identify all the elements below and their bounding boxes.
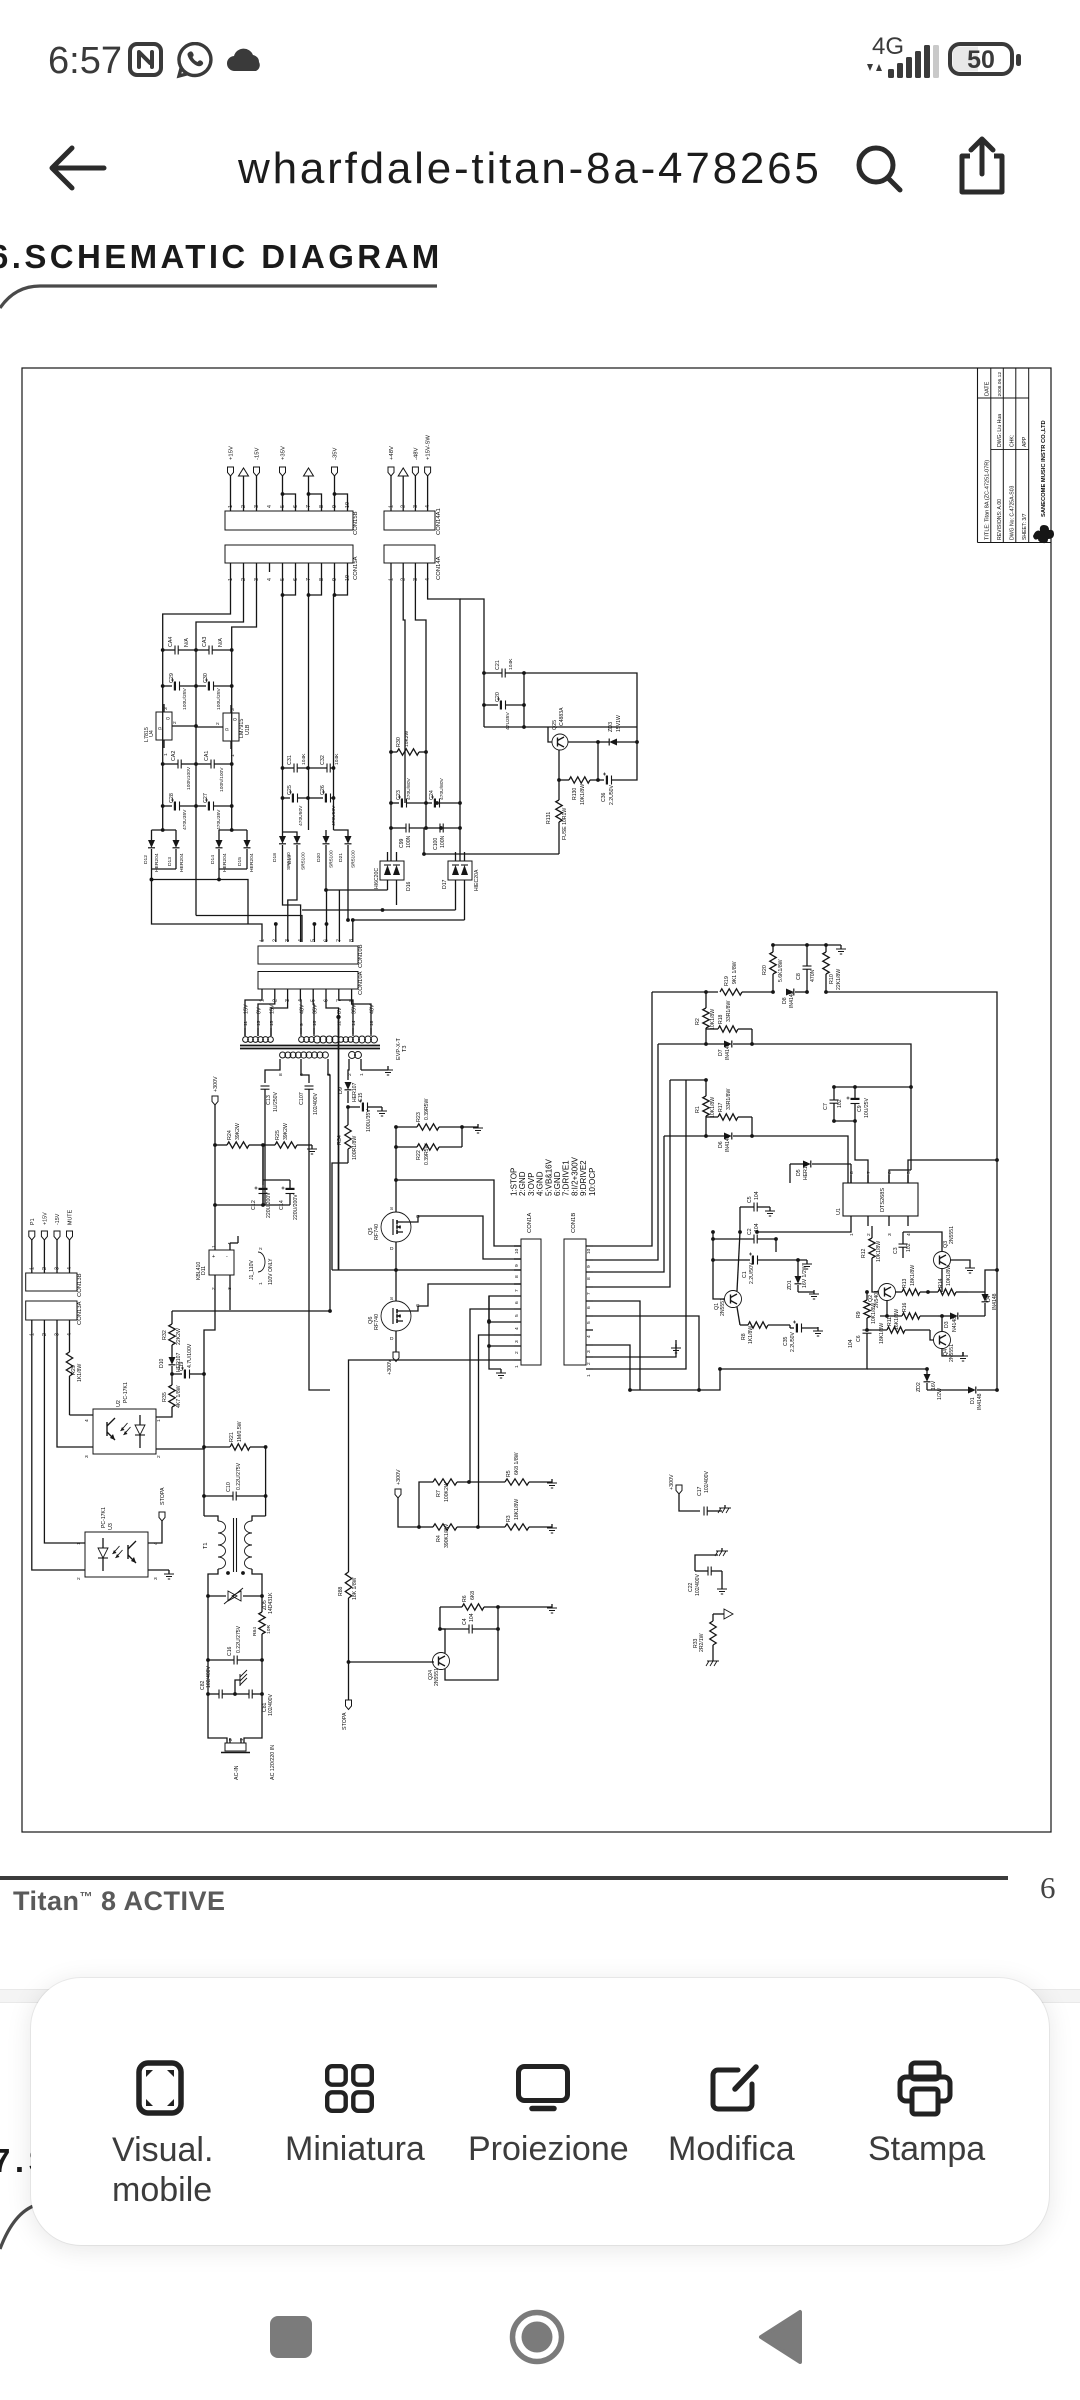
svg-text:DTS268S: DTS268S — [880, 1188, 886, 1212]
svg-text:-35V: -35V — [333, 448, 339, 460]
resistor R33 2R2/1W — [693, 1614, 716, 1658]
svg-text:AC 120/220 IN: AC 120/220 IN — [270, 1745, 276, 1780]
diode D10 HER107 — [159, 1352, 182, 1374]
wire CON1B.7 up — [593, 1080, 670, 1287]
wire CON15A.8 join — [309, 572, 322, 595]
wire C9 node to U1 — [855, 1121, 868, 1183]
wire CON1B.5 — [593, 1316, 699, 1390]
resistor R25 39K2W — [263, 1123, 312, 1148]
capacitor C4 104 — [440, 1613, 500, 1633]
capacitor C9 10U/25V — [847, 1087, 871, 1121]
svg-text:8:I/2+300V: 8:I/2+300V — [570, 1156, 579, 1196]
svg-text:4: 4 — [514, 1327, 520, 1330]
svg-text:R12: R12 — [861, 1248, 867, 1258]
svg-text:G: G — [225, 727, 229, 733]
wire C12-C13 join — [215, 1204, 265, 1206]
svg-text:DWG No: C-4725A-S03: DWG No: C-4725A-S03 — [1010, 485, 1016, 540]
svg-text:R8: R8 — [741, 1333, 747, 1340]
svg-text:100K2W: 100K2W — [444, 1482, 450, 1502]
CON1A pin legend — [510, 1156, 597, 1196]
svg-text:10U/25V: 10U/25V — [864, 1097, 870, 1118]
svg-text:D21: D21 — [338, 853, 344, 862]
svg-text:8: 8 — [849, 1171, 855, 1174]
svg-text:2.2U50V: 2.2U50V — [609, 784, 615, 805]
wire bus to C23 rail — [423, 828, 425, 854]
diode D14 HER204 — [210, 830, 228, 880]
capacitor C14 220U/200V — [279, 1180, 299, 1220]
battery — [950, 44, 1012, 74]
svg-text:5: 5 — [280, 505, 286, 508]
wire CON14A1 pin1 — [390, 476, 392, 511]
svg-text:R10: R10 — [829, 974, 835, 984]
svg-text:+15V: +15V — [229, 446, 235, 460]
bus wire D17 to pin8 — [383, 909, 456, 911]
wire bus down to Q25 base — [548, 727, 552, 742]
svg-text:R13: R13 — [902, 1278, 908, 1288]
svg-text:1: 1 — [258, 1282, 264, 1285]
capacitor C8 470N — [796, 945, 816, 994]
wire top bus y992 — [652, 991, 718, 993]
terminal MUTE — [67, 1209, 74, 1240]
svg-text:3: 3 — [887, 1233, 893, 1236]
resistor R22 0.39R5W — [396, 1143, 462, 1165]
svg-text:14: 14 — [351, 1020, 357, 1026]
svg-text:IN4148: IN4148 — [725, 1043, 731, 1060]
svg-text:+: + — [212, 1254, 215, 1260]
optocoupler U3 PC-17K1 — [76, 1507, 159, 1580]
capacitor C28 470U35V — [161, 793, 198, 830]
svg-text:15V: 15V — [270, 1004, 276, 1014]
status bar — [48, 40, 122, 83]
resistor R130 10K1/8W — [557, 777, 600, 805]
svg-text:102/400V: 102/400V — [313, 1092, 319, 1115]
svg-text:CON15A: CON15A — [353, 556, 359, 580]
svg-text:5.6K1/8W: 5.6K1/8W — [778, 959, 784, 982]
svg-text:+48V: +48V — [389, 446, 395, 460]
resistor R30 10K2W — [389, 731, 428, 756]
svg-text:4: 4 — [267, 578, 273, 581]
app bar — [44, 142, 108, 194]
wire Q25 emitter down — [597, 742, 599, 780]
svg-text:2N5551: 2N5551 — [949, 1344, 955, 1362]
wire Q1 collector up — [737, 1232, 740, 1291]
svg-text:R34: R34 — [337, 1135, 343, 1145]
svg-text:2: 2 — [586, 1362, 592, 1365]
svg-text:C36: C36 — [601, 792, 607, 802]
svg-text:1: 1 — [389, 505, 395, 508]
svg-text:D18: D18 — [272, 853, 278, 862]
svg-text:110V ONLY: 110V ONLY — [268, 1258, 274, 1285]
wire CON13A.2 down — [44, 1328, 85, 1543]
svg-text:R9: R9 — [856, 1311, 862, 1318]
svg-text:33R1/8W: 33R1/8W — [726, 1088, 732, 1110]
wire CON10A.1 to tap 11 — [245, 994, 262, 1028]
capacitor C100 100N — [426, 824, 462, 851]
capacitor C27 470U35V — [196, 793, 234, 830]
capacitor C32 104K — [308, 753, 340, 773]
svg-text:5: 5 — [311, 939, 317, 942]
wire R22 right up — [461, 1127, 463, 1147]
svg-text:ZD1: ZD1 — [787, 1280, 793, 1290]
wire CON10A.7 to tap 14 — [339, 994, 353, 1028]
capacitor CA2 100N100V — [161, 751, 198, 790]
svg-text:+300V: +300V — [669, 1474, 675, 1490]
sheet icons — [136, 2060, 184, 2116]
wire CON15A.7 down — [308, 572, 310, 830]
wire U3.3 to ground — [148, 1569, 169, 1571]
resistor R6 6K8 — [440, 1591, 500, 1629]
svg-text:CON10B: CON10B — [358, 944, 364, 968]
wire tap8 to C13 — [265, 1066, 280, 1083]
svg-text:16V 1/2W: 16V 1/2W — [802, 1265, 808, 1288]
svg-text:22K2W: 22K2W — [176, 1328, 182, 1345]
svg-text:4: 4 — [67, 1267, 73, 1270]
capacitor CA3 — [196, 637, 234, 655]
svg-text:15V: 15V — [244, 1004, 250, 1014]
capacitor C22 102/400V — [688, 1555, 722, 1596]
transistor Q2 2N5401 — [868, 1284, 896, 1309]
svg-text:2: 2 — [42, 1267, 48, 1270]
terminal +300V (primary) — [212, 1076, 219, 1105]
svg-text:104K: 104K — [334, 753, 340, 765]
wire CON10A.5 to tap 10 — [312, 994, 315, 1028]
svg-text:CON14A1: CON14A1 — [436, 508, 442, 535]
svg-text:C7: C7 — [823, 1103, 829, 1110]
diode D12 HER204 — [143, 830, 160, 880]
svg-text:C19: C19 — [179, 1361, 185, 1371]
capacitor C19 4.7U/100V — [172, 1343, 206, 1378]
svg-text:-15V: -15V — [55, 1213, 61, 1225]
svg-text:R84: R84 — [252, 1627, 258, 1636]
svg-text:HER204: HER204 — [249, 853, 255, 872]
sheet labels — [112, 2130, 312, 2210]
wire tap2 to D9 — [348, 1066, 349, 1080]
svg-text:1: 1 — [586, 1374, 592, 1377]
terminal -35V — [332, 448, 339, 476]
svg-text:R88: R88 — [338, 1586, 344, 1596]
wire 0V bold down — [338, 1017, 340, 1270]
svg-text:39K2W: 39K2W — [235, 1123, 241, 1140]
transistor Q1 2N5551 — [714, 1291, 742, 1317]
svg-text:CON13A: CON13A — [77, 1301, 83, 1325]
svg-text:2: 2 — [172, 721, 178, 724]
svg-text:HIEC20A: HIEC20A — [474, 869, 480, 891]
wire CON10A.2 to tap 13 — [258, 994, 275, 1028]
wire node to CON15B.10 — [335, 494, 348, 511]
wire tap6 down — [301, 1066, 309, 1083]
resistor R13 18K1/8W — [895, 1265, 930, 1295]
svg-text:C1: C1 — [742, 1271, 748, 1278]
connector CON14A — [384, 545, 442, 581]
bottom sheet — [31, 1978, 1049, 2245]
ground R3 — [551, 1524, 553, 1528]
resistor R29 1K1/8W — [66, 1328, 83, 1415]
svg-text:7: 7 — [514, 1289, 520, 1292]
wire right node rail — [265, 1447, 267, 1496]
svg-text:35V: 35V — [313, 1004, 319, 1014]
junction D9/C15 — [346, 1105, 350, 1109]
svg-text:102: 102 — [906, 1243, 912, 1252]
connector CON13A — [26, 1301, 83, 1336]
svg-text:U3: U3 — [108, 1523, 114, 1530]
svg-text:104: 104 — [469, 1613, 475, 1622]
svg-text:CON14A: CON14A — [436, 556, 442, 580]
wire Q4 emitter gnd — [942, 1349, 963, 1356]
svg-text:6: 6 — [293, 505, 299, 508]
svg-text:2: 2 — [156, 1455, 162, 1458]
wire C14 top — [263, 1179, 290, 1181]
svg-text:18K 1/8W: 18K 1/8W — [352, 1577, 358, 1600]
svg-text:HER107: HER107 — [803, 1160, 809, 1180]
svg-text:470U/80V: 470U/80V — [439, 777, 445, 800]
svg-text:C100: C100 — [433, 838, 439, 850]
svg-text:KBL410: KBL410 — [196, 1262, 202, 1280]
svg-text:2: 2 — [215, 722, 221, 725]
wire CON1B.3 — [593, 1345, 630, 1390]
ground R25 — [311, 1145, 313, 1149]
resistor R9 10K1/8W — [856, 1290, 877, 1326]
svg-text:3: 3 — [254, 505, 260, 508]
svg-text:R22: R22 — [416, 1150, 422, 1160]
ground Q3 — [969, 1264, 971, 1268]
terminal -48V — [412, 448, 419, 476]
wire C20/C21 left rail — [483, 673, 485, 727]
svg-text:0.39R5W: 0.39R5W — [424, 1143, 430, 1165]
svg-text:C16: C16 — [227, 1646, 233, 1656]
svg-text:14D431K: 14D431K — [268, 1592, 274, 1614]
wire +300V down — [214, 1105, 216, 1145]
resistor R17 33R1/8W — [706, 1088, 752, 1136]
svg-text:18K1/8W: 18K1/8W — [514, 1499, 520, 1520]
svg-text:9:DRIVE2: 9:DRIVE2 — [579, 1160, 588, 1196]
svg-text:D12: D12 — [143, 855, 149, 864]
wire Q24 collector up — [440, 1629, 445, 1653]
svg-text:6: 6 — [324, 939, 330, 942]
svg-text:D13: D13 — [167, 857, 173, 866]
svg-text:R1: R1 — [695, 1106, 701, 1113]
svg-text:3: 3 — [230, 708, 236, 711]
svg-text:CA1: CA1 — [204, 751, 210, 761]
diode D15 HER204 — [219, 828, 255, 872]
svg-text:6K8 1/8W: 6K8 1/8W — [514, 1452, 520, 1475]
connector CON15A — [225, 545, 359, 581]
svg-text:5: 5 — [906, 1171, 912, 1174]
wire AC loop — [208, 1694, 227, 1743]
wire base bus — [484, 726, 637, 728]
svg-text:3: 3 — [153, 1577, 159, 1580]
svg-text:102/400V: 102/400V — [704, 1470, 710, 1493]
svg-text:C3: C3 — [893, 1247, 899, 1254]
svg-text:R11: R11 — [887, 1317, 893, 1326]
terminal +300V (C17) — [669, 1474, 682, 1494]
ground top — [840, 945, 842, 949]
capacitor C6 104 — [848, 1326, 872, 1348]
ground C5 — [769, 1207, 771, 1211]
wire CON15A.2 to mid rail — [196, 572, 244, 830]
svg-text:35V: 35V — [352, 1004, 358, 1014]
ground terminal (CON15B pin2) — [239, 468, 249, 476]
wire Q5 drain — [395, 1242, 397, 1270]
capacitor C21 104K — [482, 658, 526, 678]
svg-text:100N: 100N — [406, 835, 412, 848]
svg-text:4.7U/100V: 4.7U/100V — [187, 1343, 193, 1368]
capacitor C10 0.22U/275V — [204, 1462, 266, 1500]
wire pin5 stub — [313, 924, 315, 942]
svg-text:R32: R32 — [162, 1330, 168, 1340]
svg-text:2: 2 — [514, 1351, 520, 1354]
svg-text:1: 1 — [163, 753, 169, 756]
resistor R2 10K1/8W — [695, 990, 716, 1044]
svg-text:8: 8 — [586, 1277, 592, 1280]
svg-text:U1B: U1B — [245, 724, 251, 735]
svg-text:+15V: +15V — [42, 1212, 48, 1225]
bridge rectifier D11 KBL410 — [196, 1236, 238, 1290]
wire R7 left — [419, 1482, 433, 1527]
svg-text:DATE: DATE — [985, 381, 991, 396]
svg-text:1: 1 — [849, 1233, 855, 1236]
resistor R19 9K1 1/8W — [720, 961, 775, 995]
terminal P1 — [29, 1218, 36, 1240]
wire U2.2 right — [156, 1447, 204, 1449]
wire D17 leads — [455, 880, 457, 910]
svg-text:+15V-SW: +15V-SW — [426, 435, 432, 460]
wire CON1A.6 — [489, 1296, 514, 1321]
terminal STOPA (Q24) — [342, 1700, 352, 1730]
resistor R32 22K2W — [162, 1311, 182, 1357]
svg-text:2: 2 — [866, 1233, 872, 1236]
wire Q5 rail — [395, 1127, 397, 1212]
terminal +300V (R4) — [395, 1469, 402, 1498]
svg-text:G: G — [158, 726, 162, 732]
diode D3 N4148 — [938, 1313, 985, 1333]
wire CON15A.5 down — [282, 572, 284, 830]
wire CON1B.1 — [593, 1080, 686, 1369]
svg-text:8: 8 — [514, 1275, 520, 1278]
svg-text:C31: C31 — [287, 755, 293, 765]
svg-text:9: 9 — [514, 1264, 520, 1267]
svg-text:CA3: CA3 — [202, 637, 208, 647]
svg-text:R14: R14 — [938, 1278, 944, 1288]
connector CON14A1 — [384, 505, 442, 535]
svg-text:+300V: +300V — [387, 1359, 393, 1375]
resistor R34 100R1/8W — [337, 1107, 358, 1163]
svg-text:15: 15 — [269, 1020, 275, 1026]
wire pin7 stub — [338, 890, 340, 942]
svg-text:IN4148: IN4148 — [977, 1393, 983, 1410]
svg-text:9K1 1/8W: 9K1 1/8W — [732, 961, 738, 984]
wire CON10A.3 to tap 15 — [271, 994, 288, 1028]
svg-text:10K2W: 10K2W — [404, 731, 410, 747]
svg-text:D17: D17 — [442, 879, 448, 889]
svg-text:104K: 104K — [508, 658, 514, 670]
ground R6 — [551, 1604, 553, 1608]
wire +48V rail segment — [390, 752, 392, 861]
svg-text:470U/80V: 470U/80V — [406, 777, 412, 800]
capacitor C31 104K — [281, 753, 310, 773]
svg-text:12: 12 — [337, 1020, 343, 1026]
svg-text:R3: R3 — [506, 1515, 512, 1522]
svg-text:5:VB&16V: 5:VB&16V — [544, 1158, 553, 1196]
wire CON14A1 pin4 — [427, 476, 429, 511]
svg-text:T3: T3 — [402, 1046, 408, 1052]
svg-text:CA2: CA2 — [171, 751, 177, 761]
wire R29 to U2.4 — [70, 1414, 94, 1416]
wire U1.6 up — [889, 1170, 911, 1183]
svg-text:IN4148: IN4148 — [992, 1293, 998, 1310]
resistor R4 390K1/8W — [419, 1524, 480, 1548]
wire +35V to CON15B.5 — [282, 476, 284, 511]
wire CON10A.8 to tap 16 — [352, 994, 371, 1028]
svg-text:470U50V: 470U50V — [298, 805, 304, 826]
svg-text:18K1/8W: 18K1/8W — [910, 1265, 916, 1286]
capacitor C12 220U/200V — [251, 1187, 272, 1219]
wire +300V to C17 — [679, 1494, 700, 1511]
svg-text:Q25: Q25 — [552, 720, 558, 730]
ground T3 — [360, 1066, 362, 1070]
capacitor CA4 — [161, 637, 198, 655]
resistor R8 1K1/8W — [740, 1322, 790, 1344]
open terminal R33 — [713, 1609, 733, 1619]
svg-text:R16: R16 — [902, 1302, 908, 1312]
svg-text:4: 4 — [267, 505, 273, 508]
svg-text:2.2U50V: 2.2U50V — [790, 1331, 796, 1352]
wire R88 to Q24 — [349, 1661, 435, 1663]
wire +300V to R4 node — [398, 1498, 419, 1527]
terminal -15V — [254, 448, 261, 476]
svg-text:+300V: +300V — [213, 1076, 219, 1092]
svg-text:39K2W: 39K2W — [283, 1123, 289, 1140]
wire D5 left — [789, 1164, 791, 1183]
svg-text:470U35V: 470U35V — [216, 809, 222, 830]
svg-text:8: 8 — [349, 939, 355, 942]
resistor R1 10K1/8W — [695, 1078, 716, 1136]
svg-text:1K1/8W: 1K1/8W — [77, 1364, 83, 1382]
svg-text:4: 4 — [586, 1335, 592, 1338]
wire +48V branch to C21 — [460, 599, 484, 673]
svg-text:10: 10 — [514, 1248, 520, 1254]
svg-text:13: 13 — [256, 1020, 262, 1026]
connector CON13B — [26, 1240, 83, 1297]
wire C20/C21 right rail — [523, 673, 525, 727]
resistor R23 0.39R5W — [396, 1098, 464, 1130]
svg-text:8: 8 — [278, 1073, 284, 1076]
chassis R33 — [712, 1658, 714, 1661]
wire +15V to CON15B.1 — [230, 476, 232, 511]
svg-text:PC-17K1: PC-17K1 — [123, 1382, 129, 1403]
capacitor C17 102/400V — [697, 1470, 722, 1515]
svg-text:R5: R5 — [506, 1470, 512, 1477]
diode D13 HER204 — [152, 828, 186, 872]
ground ZD1 — [798, 1291, 814, 1293]
optocoupler U2 PC-17K1 — [84, 1382, 162, 1458]
svg-text:2N5551: 2N5551 — [434, 1668, 440, 1686]
next page heading (behind sheet) — [0, 2142, 55, 2180]
wire Q6 drain to +300V — [395, 1331, 397, 1352]
capacitor C81 102/400V — [235, 1690, 274, 1717]
resistor R20 5.6K1/8W — [762, 945, 784, 992]
svg-text:10:OCP: 10:OCP — [588, 1167, 597, 1196]
wire pin2 stub — [275, 924, 277, 942]
svg-text:SR5100: SR5100 — [301, 852, 307, 870]
svg-text:R130: R130 — [572, 788, 578, 800]
svg-text:C27: C27 — [203, 793, 209, 803]
svg-text:10: 10 — [586, 1248, 592, 1254]
svg-text:6:GND: 6:GND — [553, 1171, 562, 1196]
svg-text:CON1B: CON1B — [571, 1213, 577, 1233]
svg-text:1: 1 — [156, 1419, 162, 1422]
wire gnd to CON15B.2 — [243, 476, 245, 511]
svg-text:100N/100V: 100N/100V — [219, 767, 225, 792]
